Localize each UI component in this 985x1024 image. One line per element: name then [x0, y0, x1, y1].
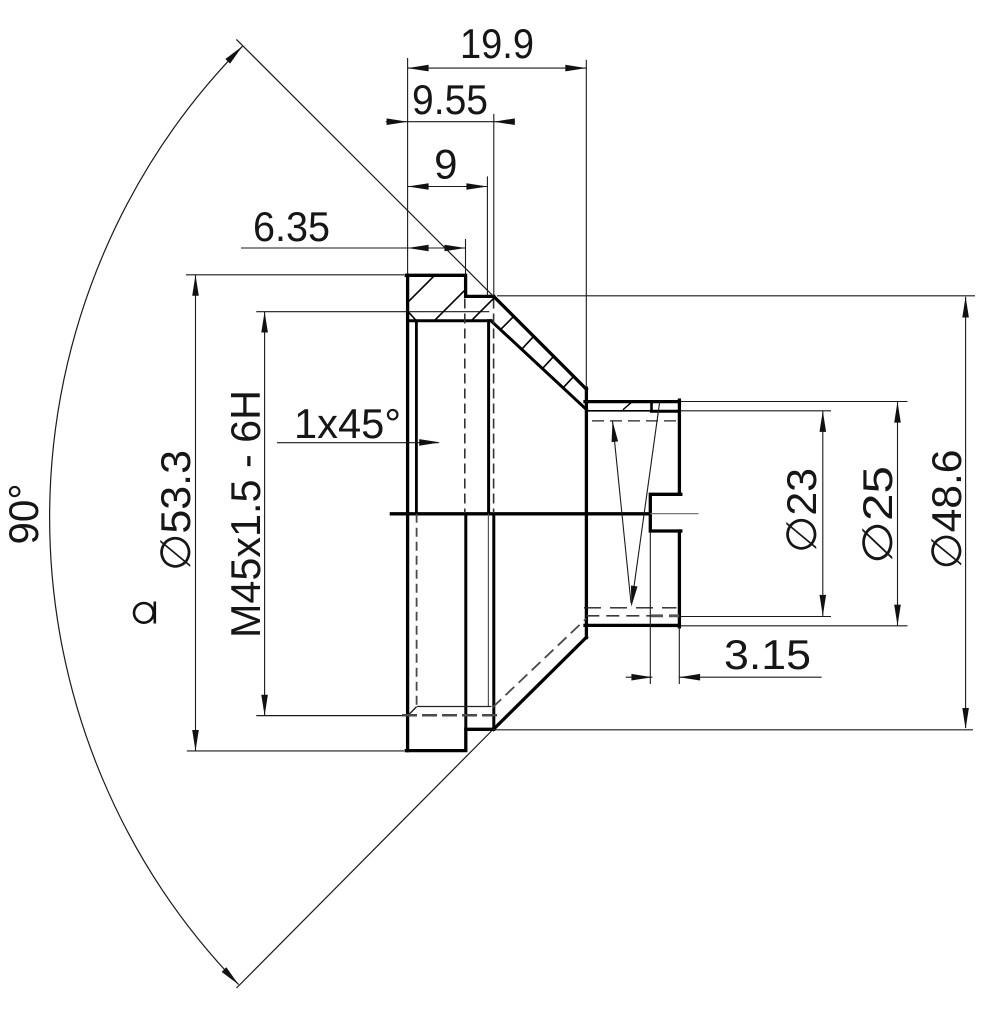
angle ray bottom (90 deg) [237, 729, 494, 988]
svg-text:M45x1.5 - 6H: M45x1.5 - 6H [222, 390, 269, 638]
part edge: bottom notch and flange bottom [406, 729, 493, 750]
hatch tick cone wall 3 [542, 357, 553, 369]
svg-text:∅48.6: ∅48.6 [923, 450, 970, 570]
inner cone surface top [491, 321, 586, 410]
arrowhead 9.55 right [494, 118, 515, 125]
part edge: cylinder bottom [585, 624, 679, 627]
arrowhead 6.35 left [408, 245, 429, 252]
extension line dia53.3 top [186, 274, 404, 276]
thin pointer line right bore B [613, 421, 632, 603]
hidden thread end bottom [487, 514, 489, 707]
arrowhead 19.9 left [408, 65, 429, 72]
hatch line flange 1 [408, 275, 435, 302]
part edge: cylinder top [585, 400, 679, 403]
hidden thread major bottom [402, 714, 500, 717]
part edge: right face upper [678, 400, 681, 494]
arrowhead dia53.3 bottom [192, 730, 199, 751]
arrowhead M45 bottom [261, 695, 268, 716]
band bottom edge right [652, 624, 680, 627]
extension line 6.35 right [465, 239, 467, 274]
dimension line dia48.6 [965, 297, 967, 728]
centerline thin right [650, 513, 698, 515]
chamfer circle edge bottom [492, 514, 495, 730]
extension line 9 right [486, 176, 488, 296]
extension line dia25 bottom [681, 625, 908, 627]
dia23 bore line top thick band [652, 410, 680, 413]
step circle edge bottom [464, 514, 467, 730]
hatch tick cone wall 1 [501, 317, 514, 330]
hidden chamfer circle bottom [416, 514, 418, 706]
hatch tick cone wall 2 [521, 337, 533, 350]
arrowhead dia48.6 top [962, 297, 969, 318]
dimension line 6.35 [241, 247, 466, 249]
arrowhead dia23 bottom [820, 595, 827, 616]
svg-text:9.55: 9.55 [412, 76, 488, 123]
chamfer circle edge top [415, 321, 418, 514]
hidden vertical at thread runout top [464, 299, 466, 514]
bore minor diameter line top [409, 319, 491, 322]
svg-text:9: 9 [434, 141, 457, 188]
extension line dia53.3 bottom [187, 750, 404, 752]
dimension line dia53.3 [195, 275, 197, 751]
hidden thread line bottom right bore [584, 607, 677, 609]
hidden dia23 bottom thick band [651, 614, 679, 617]
bore entry chamfer diagonal bottom-left [409, 707, 417, 715]
centerline thick section boundary [390, 512, 651, 515]
leader line 1x45 [277, 442, 439, 444]
thin pointer line right bore A [632, 401, 660, 605]
part edge: cone outer surface top [494, 296, 587, 389]
part edge: cone outer surface bottom [494, 637, 587, 729]
hatch line flange 2 [434, 289, 465, 320]
extension line dia48.6 top [497, 295, 975, 297]
arrowhead 6.35 right [445, 245, 466, 252]
dimension line 3.15 left part [626, 676, 653, 678]
hidden inner cone bottom [493, 619, 587, 708]
hidden thread line top right bore [592, 420, 679, 422]
svg-text:∅53.3: ∅53.3 [152, 450, 199, 571]
dimension line 9 [408, 186, 488, 188]
svg-text:3.15: 3.15 [724, 631, 811, 678]
part edge: flange top tab and step [406, 275, 494, 296]
arrowhead leader 1x45 [419, 439, 440, 446]
part edge: center recess groove [650, 494, 681, 531]
hidden vertical at chamfer corner top [493, 299, 495, 514]
extension line dia48.6 bottom [494, 729, 974, 731]
arrowhead dia48.6 bottom [962, 708, 969, 729]
dimension line M45x1.5-6H [264, 312, 266, 717]
svg-text:1x45°: 1x45° [294, 400, 401, 447]
arrowhead 3.15 right [679, 674, 700, 681]
angle dimension arc 90 deg [50, 46, 243, 984]
extension line 3.15 right [678, 627, 680, 684]
extension line 3.15 left [649, 532, 651, 684]
arrowhead pointer A bottom [628, 586, 637, 608]
extension line 19.9 right [585, 60, 587, 388]
dimension line dia25 [897, 402, 899, 626]
arrowhead dia53.3 top [192, 275, 199, 296]
dimension line 9.55 [386, 121, 515, 123]
arrowhead dia23 top [820, 411, 827, 432]
bore entry chamfer diagonal top-left [409, 312, 417, 321]
dimension line 3.15 right part [679, 676, 822, 678]
hatch line flange 3 [471, 298, 494, 321]
hidden dia23 bottom thin [586, 615, 651, 617]
extension line 9.55 right [493, 114, 495, 296]
arrowhead dia25 bottom [894, 605, 901, 626]
part edge: right face lower [678, 531, 681, 627]
tick in top band [624, 402, 632, 409]
arrowhead 3.15 left [631, 674, 652, 681]
svg-text:∅25: ∅25 [854, 466, 901, 564]
dimension line dia23 [822, 411, 824, 616]
thread major line top with M45 extension [256, 311, 489, 313]
extension line dia25 top [681, 401, 908, 403]
label a (single-storey glyph drawn) [134, 602, 155, 624]
svg-text:19.9: 19.9 [460, 20, 534, 67]
arrowhead 19.9 right [565, 65, 586, 72]
arrowhead 9 right [466, 183, 487, 190]
extension line dia23 bottom [681, 616, 831, 618]
arrowhead M45 top [261, 312, 268, 333]
part edge: cylinder left wall / step face [585, 388, 588, 637]
svg-text:6.35: 6.35 [253, 203, 330, 250]
step vertical in top band [650, 402, 653, 412]
M45 extension line bottom [256, 715, 416, 717]
arrowhead 9 left [408, 183, 429, 190]
svg-text:90°: 90° [0, 484, 47, 545]
arrowhead dia25 top [894, 402, 901, 423]
svg-text:∅23: ∅23 [778, 468, 825, 553]
bore line bottom [417, 706, 492, 708]
thread end edge top [487, 321, 490, 514]
dimension line 19.9 [408, 67, 587, 69]
extension line left face (19.9/9.55/9/6.35) [407, 58, 409, 274]
hatch tick cone wall 4 [563, 377, 574, 389]
part edge: flange left face [406, 275, 409, 750]
arrowhead 9.55 left [387, 118, 408, 125]
angle ray top (90 deg) [236, 39, 493, 296]
extension line dia23 top [681, 410, 831, 412]
arrowhead arc bottom [222, 967, 241, 987]
dia23 bore line top thin [586, 410, 651, 412]
arrowhead arc top [225, 44, 244, 64]
arrowhead pointer B top [609, 421, 618, 443]
